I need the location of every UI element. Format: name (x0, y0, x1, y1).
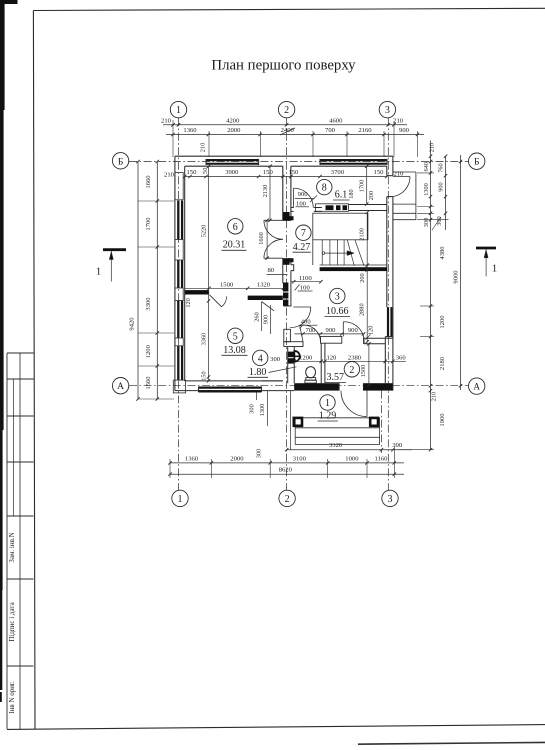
svg-text:1200: 1200 (145, 344, 152, 358)
svg-text:1100: 1100 (299, 275, 313, 282)
svg-text:2: 2 (349, 365, 354, 376)
right wall window bottom jamb (385, 336, 393, 338)
bathroom dim row 1200/120/2380/360 (294, 360, 406, 362)
left wall window 1 (177, 201, 179, 240)
svg-text:1560: 1560 (145, 376, 152, 390)
svg-text:8: 8 (322, 183, 327, 194)
right extension lines (417, 172, 434, 174)
svg-text:200: 200 (368, 191, 375, 200)
room 6 label (228, 219, 243, 234)
axis circle 1 top (170, 101, 186, 117)
section mark left (103, 248, 126, 251)
wall A upper (rooms 6|7-8) (282, 166, 284, 220)
svg-text:180: 180 (348, 189, 355, 198)
room 8 label (317, 179, 332, 194)
svg-text:4.27: 4.27 (293, 242, 311, 253)
svg-text:210: 210 (429, 143, 436, 152)
left dim line 9420 (137, 162, 139, 400)
svg-text:6.1: 6.1 (335, 190, 348, 201)
partition rooms 4/2 (320, 343, 322, 383)
left wall outer face (174, 156, 176, 390)
svg-text:4200: 4200 (226, 117, 240, 124)
stairs landing (313, 213, 368, 240)
svg-text:3100: 3100 (293, 455, 307, 462)
svg-text:900: 900 (326, 327, 337, 334)
stair flight left edge (312, 240, 314, 265)
svg-text:1660: 1660 (145, 175, 152, 189)
svg-text:3: 3 (388, 494, 393, 505)
axis circle B left (112, 153, 128, 169)
dim row 1500 1320 (185, 287, 284, 289)
svg-text:2160: 2160 (358, 127, 372, 134)
svg-text:120: 120 (326, 354, 337, 361)
svg-text:2880: 2880 (358, 303, 365, 316)
svg-text:900: 900 (399, 127, 410, 134)
partition door O1 arc (300, 325, 321, 341)
svg-text:1.29: 1.29 (319, 411, 337, 422)
svg-text:2: 2 (284, 105, 289, 116)
svg-text:9000: 9000 (453, 270, 460, 284)
left extension lines (138, 200, 174, 202)
left wall pier boxes (175, 173, 183, 200)
left wall window 2 (177, 260, 179, 288)
svg-text:210: 210 (164, 172, 175, 179)
strike over 2400 (280, 128, 295, 135)
svg-text:390: 390 (392, 442, 403, 449)
title block strip cells (6, 353, 8, 729)
svg-text:А: А (473, 383, 480, 393)
wall A door jamb blocks (283, 212, 290, 220)
svg-text:210: 210 (394, 171, 404, 178)
svg-text:900: 900 (437, 182, 444, 191)
svg-text:100: 100 (300, 285, 311, 292)
svg-text:1500: 1500 (360, 365, 367, 378)
top dimension row 2 (166, 134, 424, 136)
side porch right (393, 171, 416, 173)
svg-text:760: 760 (437, 163, 444, 172)
bottom wall inner face (185, 380, 283, 382)
room 4 west wall (287, 347, 289, 384)
svg-text:80: 80 (268, 267, 275, 274)
svg-text:9420: 9420 (129, 317, 136, 331)
bottom porch left rotated dims (256, 391, 258, 400)
svg-text:Інв N ориг.: Інв N ориг. (8, 681, 16, 714)
svg-text:150: 150 (374, 169, 385, 176)
svg-text:1300: 1300 (259, 404, 266, 417)
right dim col 9000 (460, 155, 462, 390)
svg-text:1: 1 (176, 105, 181, 116)
right dim col A (430, 141, 432, 451)
partition door O2 arc (343, 322, 363, 337)
svg-text:210: 210 (430, 392, 437, 401)
svg-text:1600: 1600 (258, 232, 265, 245)
svg-text:2: 2 (285, 494, 290, 505)
leader for 300 (432, 217, 441, 230)
room 2 label (344, 362, 359, 377)
svg-text:13.08: 13.08 (223, 345, 246, 356)
svg-text:210: 210 (161, 117, 172, 124)
door X leaf (room5 corridor) (293, 306, 311, 308)
right wall inner face lower (384, 337, 386, 384)
axis circle A right (469, 378, 485, 394)
axis circle 3 top (379, 101, 395, 117)
svg-text:1360: 1360 (185, 455, 199, 462)
svg-text:1360: 1360 (183, 127, 197, 134)
top dimension row 1 (163, 124, 407, 126)
svg-text:1.80: 1.80 (249, 367, 267, 378)
svg-text:900: 900 (298, 191, 309, 198)
right wall inner face upper (386, 166, 388, 176)
svg-text:2400: 2400 (281, 127, 295, 134)
svg-text:7: 7 (301, 228, 306, 239)
bottom wall black segment 1 (294, 383, 339, 390)
svg-text:Зам. інв.N: Зам. інв.N (8, 532, 16, 562)
partition door O1 leaf (300, 326, 303, 342)
stair direction arrow (322, 252, 325, 255)
svg-text:2130: 2130 (262, 185, 269, 198)
bottom dim row 8620 (170, 473, 404, 475)
rotated dims 260 900 room5 east (261, 302, 263, 331)
svg-text:700: 700 (306, 327, 317, 334)
svg-text:300: 300 (248, 404, 255, 413)
svg-text:1: 1 (178, 494, 183, 505)
top extension lines (172, 120, 174, 157)
bottom dim row 3320/390 (287, 449, 412, 451)
svg-text:150: 150 (263, 169, 274, 176)
120 leader (366, 335, 371, 340)
svg-text:1900: 1900 (439, 413, 446, 427)
axis circle 3 bottom (382, 490, 398, 506)
svg-text:1000: 1000 (345, 455, 359, 462)
bottom wall window (room 5) (199, 386, 262, 388)
svg-text:120: 120 (368, 326, 375, 335)
axis circle 2 bottom (279, 490, 295, 506)
svg-text:150: 150 (187, 169, 198, 176)
room 5 label (228, 328, 243, 343)
top wall outer face (175, 155, 393, 157)
left wall inner face (184, 166, 186, 381)
svg-text:3.57: 3.57 (326, 372, 344, 383)
room 4 label (253, 350, 268, 365)
svg-text:5220: 5220 (200, 225, 207, 238)
scan edge artifact left (0, 0, 5, 110)
svg-text:700: 700 (325, 127, 336, 134)
bathroom partition P1 piece B (jogged up) (321, 336, 342, 343)
frame border (33, 8, 545, 10)
svg-text:1700: 1700 (359, 180, 366, 193)
axis line 2 vertical (286, 118, 288, 490)
porch post right (370, 418, 378, 426)
svg-text:150: 150 (200, 371, 207, 380)
toilet room 4 (306, 378, 316, 381)
section mark right (476, 247, 496, 250)
axis line 1 vertical (178, 118, 180, 490)
svg-text:2380: 2380 (348, 354, 362, 361)
room6 interior vertical dim 5220/3360/150 (208, 166, 210, 381)
divider door leaf 2 (262, 302, 275, 311)
svg-text:50: 50 (202, 168, 209, 174)
room 7 label (296, 225, 311, 240)
porch post left (294, 418, 302, 426)
right wall outer face (392, 156, 394, 176)
understair wall (320, 264, 387, 266)
door X arc (290, 307, 311, 328)
room 3 label (330, 288, 345, 303)
svg-text:640: 640 (423, 162, 430, 171)
left wall window 3 (177, 301, 179, 339)
axis circle A left (112, 378, 128, 394)
svg-text:20.31: 20.31 (223, 239, 246, 250)
svg-text:400: 400 (301, 319, 312, 326)
axis line 3 vertical (387, 118, 389, 490)
room 4 west wall vent cells (288, 352, 294, 358)
rooms 5/6 divider right segment (248, 296, 283, 300)
svg-text:210: 210 (199, 143, 206, 152)
room 3 right interior dims (366, 212, 368, 341)
axis circle B right (469, 153, 485, 169)
svg-text:3360: 3360 (200, 333, 207, 346)
svg-text:2000: 2000 (230, 455, 244, 462)
svg-text:3: 3 (385, 105, 390, 116)
door room 8 (293, 188, 295, 207)
svg-text:4: 4 (258, 353, 263, 364)
svg-text:150: 150 (288, 169, 299, 176)
svg-text:300: 300 (436, 216, 443, 225)
svg-text:8620: 8620 (279, 467, 293, 474)
svg-text:1: 1 (325, 398, 330, 409)
svg-text:3700: 3700 (331, 169, 345, 176)
axis line A horizontal (129, 385, 468, 387)
svg-text:2100: 2100 (359, 228, 366, 241)
entrance door right wall (393, 176, 410, 178)
right wall window (387, 307, 389, 337)
bottom wall black segment 2 (364, 383, 393, 390)
svg-text:2000: 2000 (227, 127, 241, 134)
stair risers (321, 240, 323, 265)
axis circle 1 bottom (172, 490, 188, 506)
svg-text:1700: 1700 (145, 217, 152, 231)
svg-text:200: 200 (359, 273, 366, 282)
svg-text:900: 900 (348, 327, 359, 334)
svg-text:4380: 4380 (439, 246, 446, 260)
svg-text:5: 5 (233, 331, 238, 342)
svg-text:3: 3 (335, 292, 340, 303)
right wall door jambs (387, 175, 393, 177)
top wall inner face (185, 165, 283, 167)
porch steps (295, 427, 379, 429)
svg-text:1300: 1300 (423, 183, 430, 196)
left dim line segments (156, 162, 158, 400)
svg-text:Підпис і дата: Підпис і дата (8, 601, 16, 641)
bathroom partition P1 piece A (284, 342, 303, 347)
svg-text:3320: 3320 (329, 442, 343, 449)
svg-text:А: А (117, 382, 124, 392)
svg-text:3300: 3300 (145, 297, 152, 311)
svg-text:900: 900 (262, 315, 269, 324)
bottom dim row segments (170, 462, 404, 464)
svg-text:1320: 1320 (257, 281, 271, 288)
double door 6-7 arcs (264, 220, 283, 239)
svg-text:260: 260 (253, 312, 260, 321)
stair break diagonals (347, 240, 354, 266)
wall A notch (283, 258, 294, 283)
svg-text:1: 1 (96, 266, 102, 278)
dim 1500 room 2 (368, 344, 370, 386)
svg-text:План першого поверху: План першого поверху (211, 58, 356, 74)
svg-text:300: 300 (256, 449, 263, 458)
svg-text:300: 300 (270, 356, 281, 363)
svg-text:10.66: 10.66 (326, 306, 349, 317)
bottom extension lines (169, 459, 171, 478)
window top-1 (room 6) (206, 159, 259, 161)
svg-text:210: 210 (393, 117, 404, 124)
axis line B horizontal (129, 161, 468, 163)
room 2/3 wall right part (364, 337, 393, 339)
partition door dim row (295, 333, 365, 335)
wall stub above P1 (284, 329, 291, 341)
left wall window 4 (177, 346, 179, 380)
svg-text:120: 120 (185, 298, 192, 307)
svg-text:360: 360 (396, 354, 407, 361)
bottom wall pier left of door (262, 380, 283, 382)
scan edge artifact top (0, 0, 18, 4)
room 1 label (320, 395, 335, 410)
wall A vent block bottom cap (283, 305, 291, 307)
svg-text:3900: 3900 (225, 169, 239, 176)
svg-text:Б: Б (118, 157, 123, 167)
P1 piece C jamb (363, 336, 365, 344)
svg-text:1: 1 (492, 263, 498, 275)
porch back line (295, 417, 379, 419)
svg-text:2180: 2180 (439, 356, 446, 370)
rooms 5/6 divider left segment (185, 290, 209, 294)
sink on wall A (294, 351, 299, 362)
svg-text:300: 300 (423, 218, 430, 227)
entry door room 1 (366, 391, 368, 417)
divider door leaf 1 (210, 295, 222, 307)
bottom wall outer face (175, 390, 294, 392)
porch axis dash line (381, 391, 383, 453)
svg-text:1160: 1160 (375, 455, 389, 462)
window top-2 (room 8) (320, 159, 387, 161)
double door 6-7 leaves (264, 219, 283, 221)
right wall inner face middle (386, 197, 388, 308)
svg-text:6: 6 (233, 222, 238, 233)
next sheet edge line (358, 742, 545, 744)
wall A vent cells (283, 283, 288, 292)
svg-text:4600: 4600 (329, 117, 343, 124)
vent wall rooms 7/8 (291, 207, 294, 209)
top wall interior dim row (185, 176, 387, 178)
partition door O2 leaf (342, 322, 344, 337)
svg-text:1500: 1500 (220, 281, 234, 288)
room 1 left boundary (289, 391, 291, 450)
svg-text:1200: 1200 (299, 354, 313, 361)
svg-text:Б: Б (474, 158, 479, 168)
right dim col B short (445, 156, 447, 230)
leader 1.80 (269, 367, 297, 373)
axis circle 2 top (278, 101, 294, 117)
room6 right dims 2130 1600 (269, 166, 271, 220)
svg-text:1200: 1200 (439, 315, 446, 329)
